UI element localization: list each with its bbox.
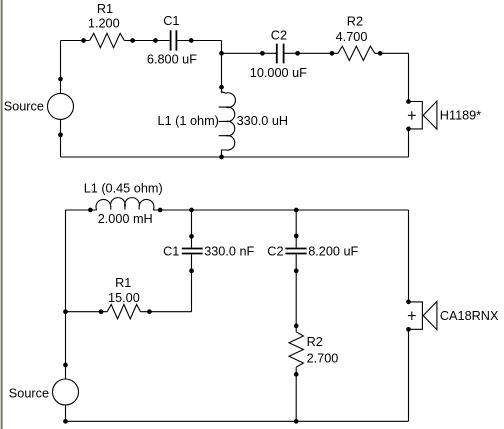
svg-text:C1: C1: [163, 245, 179, 259]
svg-text:R1: R1: [97, 2, 113, 16]
svg-text:6.800 uF: 6.800 uF: [147, 53, 197, 67]
svg-text:L1 (0.45 ohm): L1 (0.45 ohm): [84, 182, 163, 196]
svg-text:330.0 uH: 330.0 uH: [237, 114, 289, 128]
svg-text:R2: R2: [347, 14, 363, 28]
svg-text:2.000 mH: 2.000 mH: [98, 212, 153, 226]
svg-text:CA18RNX: CA18RNX: [440, 309, 499, 323]
svg-text:4.700: 4.700: [336, 30, 368, 44]
svg-text:C2: C2: [271, 29, 287, 43]
svg-text:C2: C2: [267, 245, 283, 259]
svg-text:R2: R2: [307, 335, 323, 349]
svg-text:1.200: 1.200: [88, 17, 120, 31]
svg-text:15.00: 15.00: [108, 291, 140, 305]
svg-text:Source: Source: [9, 387, 49, 401]
svg-text:10.000 uF: 10.000 uF: [250, 66, 307, 80]
svg-text:C1: C1: [163, 14, 179, 28]
svg-text:8.200 uF: 8.200 uF: [308, 245, 358, 259]
svg-text:330.0 nF: 330.0 nF: [204, 245, 254, 259]
svg-text:H1189*: H1189*: [440, 109, 481, 123]
svg-text:L1 (1 ohm): L1 (1 ohm): [158, 114, 219, 128]
svg-text:Source: Source: [4, 99, 44, 113]
svg-text:2.700: 2.700: [307, 351, 339, 365]
svg-text:R1: R1: [115, 276, 131, 290]
